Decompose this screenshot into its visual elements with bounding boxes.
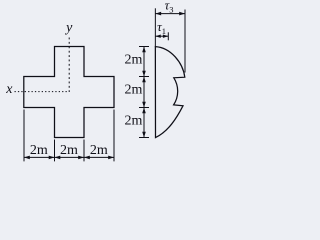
svg-text:2m: 2m xyxy=(90,143,108,158)
svg-text:2m: 2m xyxy=(125,83,143,98)
svg-text:x: x xyxy=(5,82,13,97)
svg-text:y: y xyxy=(64,21,73,36)
svg-text:2m: 2m xyxy=(60,143,78,158)
svg-text:2m: 2m xyxy=(125,53,143,68)
svg-text:2m: 2m xyxy=(30,143,48,158)
svg-text:2m: 2m xyxy=(125,114,143,129)
